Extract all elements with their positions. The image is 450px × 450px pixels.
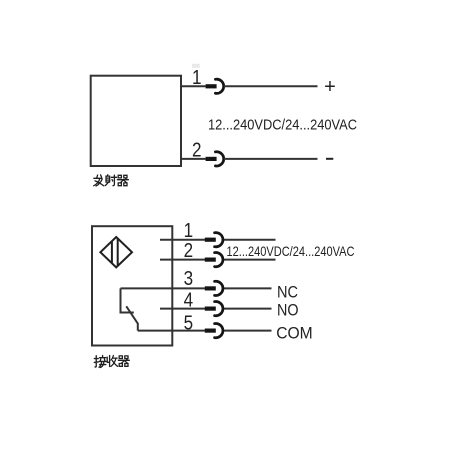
svg-text:3: 3 xyxy=(184,268,194,290)
svg-text:4: 4 xyxy=(184,290,194,312)
svg-text:5: 5 xyxy=(184,313,194,335)
svg-text:COM: COM xyxy=(276,323,313,342)
svg-text:1: 1 xyxy=(192,67,202,89)
svg-text:+: + xyxy=(324,76,336,98)
svg-text:12...240VDC/24...240VAC: 12...240VDC/24...240VAC xyxy=(208,117,357,134)
svg-text:NO: NO xyxy=(277,300,299,319)
svg-text:12...240VDC/24...240VAC: 12...240VDC/24...240VAC xyxy=(227,243,355,259)
svg-text:2: 2 xyxy=(184,240,194,262)
svg-text:2: 2 xyxy=(192,139,202,161)
svg-text:1: 1 xyxy=(184,220,194,242)
svg-text:NC: NC xyxy=(277,282,298,301)
